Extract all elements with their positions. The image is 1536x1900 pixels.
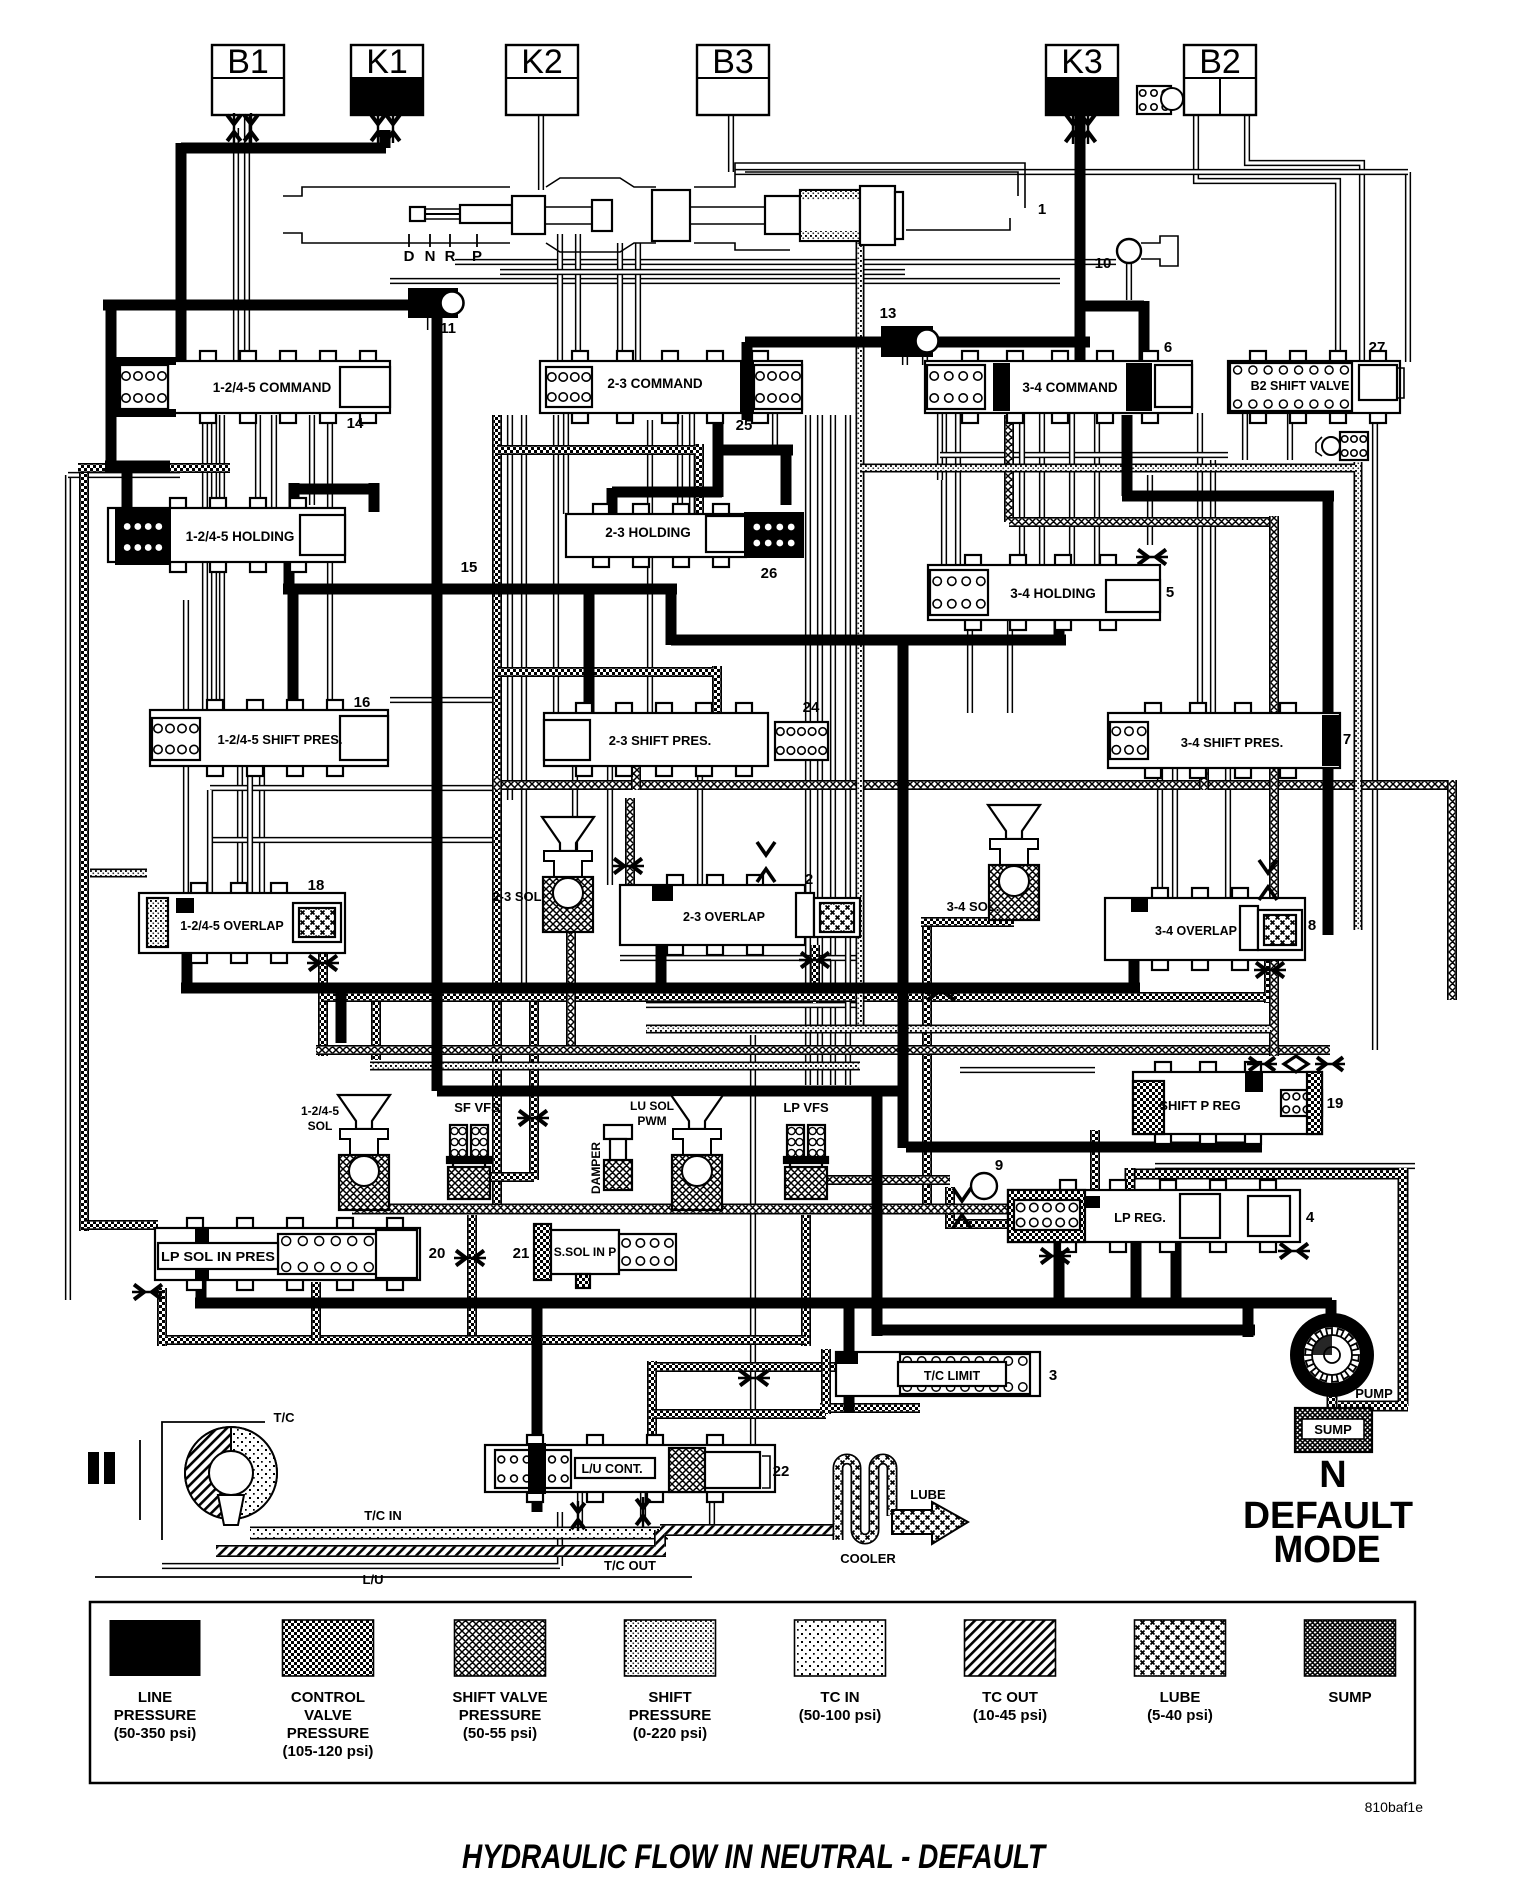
svg-text:2-3 COMMAND: 2-3 COMMAND	[607, 376, 703, 391]
svg-text:7: 7	[1343, 731, 1351, 748]
svg-text:1-2/4-5: 1-2/4-5	[301, 1104, 339, 1118]
svg-text:T/C IN: T/C IN	[364, 1508, 402, 1523]
svg-text:25: 25	[736, 417, 753, 434]
svg-text:2-3 HOLDING: 2-3 HOLDING	[605, 525, 691, 540]
svg-text:HYDRAULIC FLOW IN NEUTRAL - DE: HYDRAULIC FLOW IN NEUTRAL - DEFAULT	[462, 1838, 1048, 1876]
svg-text:18: 18	[308, 877, 325, 894]
svg-text:PRESSURE: PRESSURE	[287, 1725, 370, 1742]
svg-text:LU SOL: LU SOL	[630, 1099, 674, 1113]
svg-text:B1: B1	[227, 43, 269, 81]
svg-text:3-4 SOL.: 3-4 SOL.	[947, 899, 1000, 914]
svg-text:L/U CONT.: L/U CONT.	[581, 1462, 642, 1476]
svg-text:3-4 COMMAND: 3-4 COMMAND	[1022, 380, 1118, 395]
svg-text:SUMP: SUMP	[1328, 1689, 1371, 1706]
svg-text:PUMP: PUMP	[1355, 1386, 1393, 1401]
svg-text:2-3 OVERLAP: 2-3 OVERLAP	[683, 910, 765, 924]
svg-text:3-4 OVERLAP: 3-4 OVERLAP	[1155, 924, 1237, 938]
svg-text:27: 27	[1369, 339, 1386, 356]
svg-text:2-3 SOL: 2-3 SOL	[492, 889, 541, 904]
svg-text:MODE: MODE	[1274, 1529, 1381, 1571]
svg-text:B3: B3	[712, 43, 754, 81]
svg-text:14: 14	[347, 415, 364, 432]
svg-text:1: 1	[1038, 201, 1046, 218]
svg-text:SUMP: SUMP	[1314, 1422, 1352, 1437]
svg-text:(105-120 psi): (105-120 psi)	[283, 1743, 374, 1760]
svg-text:B2 SHIFT VALVE: B2 SHIFT VALVE	[1251, 379, 1350, 393]
svg-text:810baf1e: 810baf1e	[1365, 1799, 1424, 1815]
svg-text:K3: K3	[1061, 43, 1103, 81]
svg-text:S.SOL IN P: S.SOL IN P	[554, 1245, 616, 1259]
svg-text:PWM: PWM	[637, 1114, 666, 1128]
svg-text:4: 4	[1306, 1209, 1315, 1226]
svg-text:PRESSURE: PRESSURE	[459, 1707, 542, 1724]
svg-text:6: 6	[1164, 339, 1172, 356]
svg-text:LUBE: LUBE	[910, 1487, 946, 1502]
svg-text:SHIFT P REG: SHIFT P REG	[1159, 1098, 1240, 1113]
svg-text:1-2/4-5 COMMAND: 1-2/4-5 COMMAND	[213, 380, 332, 395]
svg-text:24: 24	[803, 699, 820, 716]
svg-text:COOLER: COOLER	[840, 1551, 896, 1566]
svg-text:LINE: LINE	[138, 1689, 172, 1706]
svg-text:R: R	[445, 248, 456, 265]
svg-text:SF VFS: SF VFS	[454, 1100, 500, 1115]
svg-text:3-4 SHIFT PRES.: 3-4 SHIFT PRES.	[1181, 735, 1284, 750]
svg-text:LP REG.: LP REG.	[1114, 1210, 1166, 1225]
svg-text:5: 5	[1166, 584, 1174, 601]
svg-text:LP SOL IN PRES: LP SOL IN PRES	[161, 1250, 275, 1264]
svg-text:11: 11	[440, 320, 456, 337]
svg-text:N: N	[1319, 1454, 1346, 1496]
svg-text:(0-220 psi): (0-220 psi)	[633, 1725, 707, 1742]
svg-text:(50-350 psi): (50-350 psi)	[114, 1725, 197, 1742]
svg-text:SHIFT: SHIFT	[648, 1689, 691, 1706]
svg-text:D: D	[404, 248, 415, 265]
svg-text:9: 9	[995, 1157, 1003, 1174]
svg-text:1-2/4-5 SHIFT PRES.: 1-2/4-5 SHIFT PRES.	[218, 732, 343, 747]
svg-text:LP VFS: LP VFS	[783, 1100, 829, 1115]
svg-text:PRESSURE: PRESSURE	[114, 1707, 197, 1724]
svg-text:3-4 HOLDING: 3-4 HOLDING	[1010, 586, 1096, 601]
svg-text:22: 22	[773, 1463, 790, 1480]
svg-text:K1: K1	[366, 43, 408, 81]
svg-text:LUBE: LUBE	[1160, 1689, 1201, 1706]
svg-text:T/C: T/C	[274, 1410, 296, 1425]
svg-text:3: 3	[1049, 1367, 1057, 1384]
svg-text:2-3 SHIFT PRES.: 2-3 SHIFT PRES.	[609, 733, 712, 748]
svg-text:(50-55 psi): (50-55 psi)	[463, 1725, 537, 1742]
svg-text:T/C OUT: T/C OUT	[604, 1558, 656, 1573]
svg-text:10: 10	[1095, 255, 1112, 272]
svg-text:SOL: SOL	[308, 1119, 333, 1133]
svg-text:PRESSURE: PRESSURE	[629, 1707, 712, 1724]
svg-text:21: 21	[513, 1245, 530, 1262]
svg-text:DAMPER: DAMPER	[589, 1142, 603, 1194]
svg-text:(10-45 psi): (10-45 psi)	[973, 1707, 1047, 1724]
svg-text:L/U: L/U	[363, 1572, 384, 1587]
svg-text:T/C LIMIT: T/C LIMIT	[924, 1369, 981, 1383]
svg-text:16: 16	[354, 694, 371, 711]
svg-text:8: 8	[1308, 917, 1316, 934]
svg-text:TC IN: TC IN	[820, 1689, 859, 1706]
svg-text:VALVE: VALVE	[304, 1707, 352, 1724]
svg-text:SHIFT VALVE: SHIFT VALVE	[452, 1689, 547, 1706]
svg-text:P: P	[472, 248, 482, 265]
svg-text:26: 26	[761, 565, 778, 582]
svg-text:(5-40 psi): (5-40 psi)	[1147, 1707, 1213, 1724]
svg-text:2: 2	[805, 871, 813, 888]
svg-text:CONTROL: CONTROL	[291, 1689, 365, 1706]
svg-text:K2: K2	[521, 43, 563, 81]
svg-text:(50-100 psi): (50-100 psi)	[799, 1707, 882, 1724]
svg-text:TC OUT: TC OUT	[982, 1689, 1038, 1706]
svg-text:20: 20	[429, 1245, 446, 1262]
svg-text:15: 15	[461, 559, 478, 576]
svg-text:1-2/4-5 HOLDING: 1-2/4-5 HOLDING	[186, 529, 295, 544]
svg-text:B2: B2	[1199, 43, 1241, 81]
svg-text:N: N	[425, 248, 436, 265]
svg-text:1-2/4-5 OVERLAP: 1-2/4-5 OVERLAP	[180, 919, 284, 933]
svg-text:13: 13	[880, 305, 897, 322]
svg-text:19: 19	[1327, 1095, 1344, 1112]
